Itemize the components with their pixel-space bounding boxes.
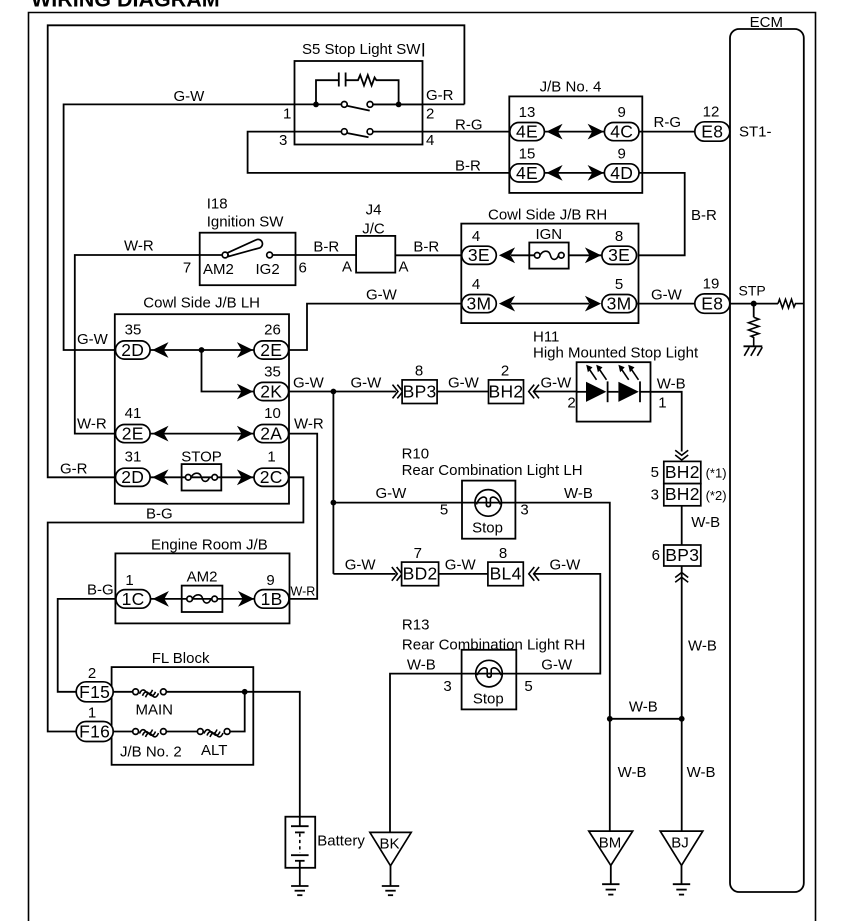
svg-text:A: A (342, 259, 352, 276)
svg-text:High Mounted Stop Light: High Mounted Stop Light (533, 345, 699, 362)
svg-text:R13: R13 (402, 617, 430, 634)
svg-text:STOP: STOP (181, 449, 222, 466)
svg-text:R10: R10 (402, 446, 430, 463)
svg-text:STP: STP (739, 283, 766, 299)
svg-text:4C: 4C (610, 122, 633, 142)
svg-text:W-B: W-B (407, 657, 436, 674)
wire B-R 4D to 3E(8) (639, 173, 718, 255)
LH row1: 2D(35) to 2E(26) (77, 322, 289, 360)
junction block Cowl Side J/B RH (461, 207, 638, 324)
wire W-B R10 pin3 to BM (486, 485, 610, 831)
svg-text:G-W: G-W (541, 657, 573, 674)
wire W-R to 2E(41) (75, 255, 200, 434)
wire G-W 2E(26) to 3M(4) (289, 287, 462, 351)
svg-text:J4: J4 (366, 202, 382, 219)
svg-text:G-W: G-W (293, 375, 325, 392)
node labels top (174, 87, 483, 175)
svg-text:3: 3 (279, 132, 287, 149)
svg-text:BP3: BP3 (665, 545, 699, 565)
svg-text:BH2: BH2 (665, 484, 700, 504)
svg-text:W-B: W-B (564, 485, 593, 502)
svg-text:1: 1 (125, 572, 133, 589)
fusible link ALT (166, 692, 244, 759)
svg-text:5: 5 (615, 276, 623, 293)
wire G-W BD2 to BL4 (439, 557, 488, 574)
stop light switch S5 (295, 41, 424, 145)
svg-text:J/B No. 4: J/B No. 4 (540, 79, 602, 96)
LH row2: 2E(41) to 2A(10) (77, 405, 289, 444)
RH row1: 3E(4) fuse IGN 3E(8) (462, 226, 637, 269)
wire W-B tie BM to BJ (607, 699, 716, 782)
svg-text:3E: 3E (468, 245, 490, 265)
svg-text:BH2: BH2 (665, 462, 700, 482)
svg-text:2: 2 (88, 665, 96, 682)
svg-text:35: 35 (264, 364, 281, 381)
svg-text:41: 41 (125, 405, 142, 422)
connector BH2 (5)(*1) (651, 461, 727, 483)
svg-text:W-B: W-B (691, 514, 720, 531)
wire R-G S5 pin4 to 4E(13) (373, 103, 465, 105)
svg-text:Stop: Stop (472, 520, 503, 537)
LH row3: 2D(31) fuse STOP 2C(1) (60, 449, 289, 491)
svg-text:ECM: ECM (750, 14, 783, 31)
wire R-G 4C to E8(12) (639, 114, 695, 132)
svg-text:J/B No. 2: J/B No. 2 (120, 744, 182, 761)
svg-text:4E: 4E (516, 122, 538, 142)
svg-text:Stop: Stop (473, 691, 504, 708)
svg-text:Engine Room J/B: Engine Room J/B (151, 537, 268, 554)
svg-text:1: 1 (283, 106, 291, 123)
svg-text:2: 2 (567, 395, 575, 412)
wire B-G F15 to 1C (58, 582, 116, 692)
svg-text:B-G: B-G (146, 506, 173, 523)
svg-text:FL Block: FL Block (152, 650, 210, 667)
svg-text:W-B: W-B (618, 764, 647, 781)
svg-text:4E: 4E (516, 163, 538, 183)
svg-text:G-W: G-W (77, 331, 109, 348)
wire B-G 2C(1) to F16 via left loop (48, 477, 304, 731)
connector BP3 (8) (402, 363, 437, 404)
rear combination light R10 (402, 446, 583, 539)
ground connector BJ (660, 831, 703, 895)
svg-text:Rear Combination Light RH: Rear Combination Light RH (402, 637, 585, 654)
svg-text:G-W: G-W (366, 287, 398, 304)
svg-text:BD2: BD2 (403, 564, 438, 584)
svg-text:(*1): (*1) (706, 466, 727, 481)
junction block Engine Room J/B (115, 537, 289, 624)
connector BH2 (2) (489, 363, 524, 404)
wire G-W to BD2 (333, 557, 395, 574)
connector F15 (2) (76, 665, 113, 702)
svg-text:G-W: G-W (345, 557, 377, 574)
svg-text:15: 15 (519, 145, 536, 162)
ignition switch I18 (183, 196, 307, 286)
connector chevrons into BH2(5) (675, 450, 688, 460)
wire G-W 2K(35) main feed (289, 375, 397, 395)
svg-text:W-B: W-B (629, 699, 658, 716)
svg-text:Cowl Side J/B RH: Cowl Side J/B RH (488, 207, 607, 224)
svg-text:BL4: BL4 (490, 564, 522, 584)
H11 LED D2 (608, 365, 651, 402)
ER row: 1C(1) fuse AM2 1B(9) (116, 569, 289, 613)
svg-text:1: 1 (267, 449, 275, 466)
svg-text:W-R: W-R (294, 416, 324, 433)
wire B-R I18 pin6 to J4 (273, 239, 357, 256)
svg-text:G-W: G-W (351, 375, 383, 392)
ground connector BM (589, 831, 633, 895)
svg-text:8: 8 (615, 228, 623, 245)
svg-text:S5 Stop Light SW: S5 Stop Light SW (302, 41, 421, 58)
svg-text:2A: 2A (260, 424, 282, 444)
svg-text:2K: 2K (260, 381, 282, 401)
svg-text:I18: I18 (207, 196, 228, 213)
ground ECM internal (744, 346, 763, 356)
R13 right wire labels (488, 657, 573, 696)
svg-text:9: 9 (618, 145, 626, 162)
svg-text:IGN: IGN (535, 226, 562, 243)
svg-text:AM2: AM2 (203, 261, 234, 278)
wire G-R loop S5 pin2 to 2D(31) (48, 25, 465, 477)
svg-text:2D: 2D (121, 467, 144, 487)
svg-text:W-R: W-R (77, 416, 107, 433)
connector BP3 (6) (652, 545, 701, 566)
svg-text:2D: 2D (121, 340, 144, 360)
wire B-R S5 pin3 to 4E(15) (248, 132, 510, 173)
svg-text:35: 35 (125, 322, 142, 339)
wire W-B R13 pin3 to BK (390, 657, 490, 833)
svg-text:9: 9 (618, 104, 626, 121)
svg-text:ALT: ALT (201, 742, 227, 759)
svg-text:3M: 3M (466, 294, 491, 314)
svg-text:E8: E8 (701, 122, 723, 142)
rear combination light R13 (402, 617, 585, 710)
svg-text:5: 5 (651, 464, 659, 481)
wire F15 row to junction (166, 689, 247, 695)
connector E8 pin19 (695, 276, 730, 314)
wire G-W BP3 to BH2 (437, 375, 488, 392)
svg-text:2E: 2E (122, 424, 144, 444)
svg-text:1: 1 (88, 705, 96, 722)
svg-text:8: 8 (499, 545, 507, 562)
svg-text:2: 2 (501, 363, 509, 380)
svg-text:G-W: G-W (448, 375, 480, 392)
svg-text:BM: BM (599, 835, 622, 852)
ground connector BK (370, 832, 411, 895)
svg-text:1C: 1C (122, 589, 145, 609)
svg-text:B-R: B-R (455, 158, 481, 175)
wire B-R J4 to 3E(4) (395, 239, 461, 256)
fuse block FL Block (112, 650, 254, 765)
svg-text:1B: 1B (261, 589, 283, 609)
connector chevrons into BL4 (529, 567, 539, 581)
svg-text:3M: 3M (607, 294, 632, 314)
S5 snubber branch: capacitor C1 + resistor (313, 73, 401, 108)
RH row2: 3M(4) to 3M(5) (462, 276, 637, 314)
connector BL4 (8) (488, 545, 523, 586)
wire W-B BH2 to BP3 (682, 506, 720, 545)
svg-text:BH2: BH2 (489, 381, 524, 401)
svg-text:MAIN: MAIN (136, 702, 174, 719)
svg-text:W-R: W-R (291, 585, 316, 599)
svg-text:2C: 2C (260, 467, 283, 487)
J/B4 row1: 4E(13) to 4C(9) (510, 104, 639, 142)
connector chevrons into BP3(6) (675, 573, 688, 583)
fusible link MAIN (113, 689, 173, 719)
svg-text:B-G: B-G (87, 582, 114, 599)
svg-text:R-G: R-G (455, 117, 483, 134)
svg-text:2E: 2E (260, 340, 282, 360)
high mounted stop light H11 (533, 329, 699, 422)
svg-text:4: 4 (472, 276, 480, 293)
connector chevrons into BP3 (393, 385, 403, 399)
connector chevrons into BD2 (392, 567, 402, 581)
svg-text:7: 7 (183, 260, 191, 277)
svg-text:(*2): (*2) (706, 488, 727, 503)
junction block J/B No.4 (509, 79, 642, 193)
svg-text:Ignition SW: Ignition SW (207, 214, 285, 231)
svg-text:G-R: G-R (60, 461, 88, 478)
LH branch to 2K(35) (202, 350, 289, 401)
svg-text:31: 31 (125, 449, 142, 466)
svg-text:W-B: W-B (688, 638, 717, 655)
wire G-W 3M(5) to E8(19) (637, 287, 695, 304)
svg-text:BK: BK (379, 836, 399, 853)
R13 bulb Stop (473, 660, 504, 707)
svg-text:G-R: G-R (426, 87, 454, 104)
resistor R-down vertical (749, 304, 759, 346)
connector BD2 (7) (402, 545, 439, 586)
svg-text:B-R: B-R (313, 239, 339, 256)
ECM U1 box (730, 14, 804, 892)
svg-text:12: 12 (703, 104, 720, 121)
svg-text:3: 3 (651, 487, 659, 504)
svg-text:G-W: G-W (376, 485, 408, 502)
svg-text:6: 6 (299, 260, 307, 277)
fusible link J/B No.2 (113, 729, 182, 761)
svg-text:G-W: G-W (541, 375, 573, 392)
svg-text:3: 3 (520, 502, 528, 519)
svg-text:BP3: BP3 (403, 381, 437, 401)
svg-text:2: 2 (426, 106, 434, 123)
svg-text:5: 5 (440, 502, 448, 519)
svg-text:A: A (399, 259, 409, 276)
connector E8 pin12 (695, 104, 772, 142)
svg-text:Cowl Side J/B LH: Cowl Side J/B LH (143, 295, 260, 312)
svg-text:19: 19 (703, 276, 720, 293)
svg-text:10: 10 (264, 405, 281, 422)
svg-text:G-W: G-W (445, 557, 477, 574)
svg-text:7: 7 (414, 545, 422, 562)
svg-text:W-R: W-R (124, 238, 154, 255)
S5 switch row 1 (295, 102, 423, 111)
connector BH2 (3)(*2) (651, 484, 727, 506)
svg-text:WIRING DIAGRAM: WIRING DIAGRAM (31, 0, 220, 12)
svg-text:E8: E8 (701, 294, 723, 314)
svg-text:4D: 4D (610, 163, 633, 183)
svg-text:Battery: Battery (317, 833, 365, 850)
svg-text:F15: F15 (79, 682, 110, 702)
svg-text:4: 4 (472, 228, 480, 245)
battery B1 (285, 817, 365, 886)
S5 switch row 2 (295, 129, 373, 138)
svg-text:G-W: G-W (651, 287, 683, 304)
svg-text:G-W: G-W (550, 557, 582, 574)
svg-text:B-R: B-R (413, 239, 439, 256)
wire G-W junction to R10 pin5 (331, 485, 489, 519)
svg-text:ST1-: ST1- (739, 124, 772, 141)
svg-text:AM2: AM2 (187, 569, 218, 586)
svg-text:3: 3 (443, 678, 451, 695)
svg-text:5: 5 (524, 678, 532, 695)
wire G-W BH2 to H11 pin2 (534, 375, 576, 412)
svg-text:BJ: BJ (671, 835, 689, 852)
svg-text:W-B: W-B (687, 764, 716, 781)
ECM internal STP node (730, 283, 778, 307)
connector F16 (1) (76, 705, 113, 742)
svg-text:1: 1 (658, 395, 666, 412)
svg-text:6: 6 (652, 547, 660, 564)
connector chevrons into BH2 (529, 385, 539, 399)
wire W-B H11 pin1 down (651, 376, 686, 452)
R10 bulb Stop (472, 490, 503, 537)
wire FL Block output to battery (245, 692, 300, 817)
svg-text:4: 4 (426, 132, 434, 149)
svg-text:9: 9 (266, 572, 274, 589)
J/B4 row2: 4E(15) to 4D(9) (510, 145, 639, 183)
svg-text:8: 8 (415, 363, 423, 380)
svg-text:J/C: J/C (362, 221, 385, 238)
H11 LED D1 (577, 365, 608, 402)
svg-text:H11: H11 (533, 329, 559, 346)
wire W-B BP3 down to BJ (681, 566, 683, 831)
wire G-W vertical 2K branch down (332, 392, 334, 574)
svg-text:IG2: IG2 (256, 261, 280, 278)
junction connector J4 J/C (342, 202, 409, 276)
svg-text:R-G: R-G (654, 114, 682, 131)
svg-text:G-W: G-W (174, 88, 206, 105)
wire G-W BL4 to R13 pin5 (516, 557, 600, 674)
svg-text:B-R: B-R (691, 207, 717, 224)
wire W-R 2A(10) to 1B(9) (289, 416, 324, 599)
svg-text:W-B: W-B (657, 376, 686, 393)
junction block Cowl Side J/B LH (115, 295, 289, 504)
ground below battery (291, 886, 308, 895)
svg-text:26: 26 (264, 322, 281, 339)
svg-text:3E: 3E (608, 245, 630, 265)
svg-text:F16: F16 (79, 722, 110, 742)
svg-text:13: 13 (519, 104, 536, 121)
svg-text:Rear Combination Light LH: Rear Combination Light LH (402, 462, 583, 479)
wire G-W S5 pin1 to 2D(35) (64, 104, 295, 350)
resistor R-pullup horizontal (778, 299, 804, 308)
